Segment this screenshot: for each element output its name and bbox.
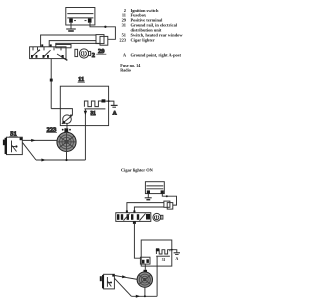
fusebox ON bbox=[141, 240, 172, 266]
wire fuse to lighter ON bbox=[144, 264, 146, 270]
svg-text:31: 31 bbox=[122, 23, 126, 28]
wire cigar lighter to ground wire bbox=[66, 152, 68, 161]
pin terminal squares on ignition switch bbox=[41, 44, 43, 46]
connector arrow ON bbox=[122, 275, 126, 278]
svg-text:A: A bbox=[113, 111, 117, 117]
svg-text:A: A bbox=[123, 52, 127, 57]
connector arrow on ground wire bbox=[84, 111, 87, 115]
svg-text:Cigar lighter ON: Cigar lighter ON bbox=[121, 168, 154, 173]
svg-text:31: 31 bbox=[162, 258, 166, 262]
cigar lighter disc ON bbox=[137, 272, 152, 287]
ground under battery bbox=[66, 23, 76, 31]
key cylinder ON bbox=[153, 213, 163, 221]
svg-text:A: A bbox=[176, 257, 179, 261]
wire terminal to ignition ON (lower) bbox=[134, 207, 164, 213]
bottom ground wire ON bbox=[131, 295, 157, 297]
ground rail comb ON bbox=[156, 248, 170, 261]
ignition switch key cylinder bbox=[75, 49, 91, 58]
wire ignition pin to terminal (lower) bbox=[49, 41, 96, 47]
fuse no.14 (circle with arrow) bbox=[62, 115, 73, 124]
wire ignition down ON bbox=[133, 221, 141, 258]
switch diagonal lead ON bbox=[115, 278, 132, 296]
svg-text:2: 2 bbox=[92, 52, 95, 59]
connector arrow on bottom wire ON bbox=[136, 295, 140, 298]
wire ignition pin to terminal (upper) bbox=[41, 35, 96, 47]
ground under battery ON bbox=[145, 194, 152, 200]
ground rail 31 comb bbox=[84, 99, 105, 109]
svg-text:Radio: Radio bbox=[120, 68, 131, 73]
ground point A bbox=[111, 105, 118, 107]
positive terminal 29 connector bbox=[96, 35, 108, 46]
wire fuse to cigar lighter bbox=[66, 124, 68, 129]
svg-text:distribution unit: distribution unit bbox=[131, 27, 162, 32]
switch 51 diagonal lead bbox=[23, 143, 37, 160]
battery (top diagram) bbox=[66, 8, 95, 26]
cigar lighter 223 terminal bbox=[62, 128, 71, 132]
pin ticks ON bbox=[126, 210, 128, 212]
fuse ON bbox=[140, 257, 150, 264]
ignition switch block ON bbox=[116, 213, 151, 222]
cigar lighter terminal ON bbox=[144, 270, 148, 273]
ground return wire up to rail ON bbox=[156, 256, 158, 296]
connector arrow on bottom wire bbox=[41, 159, 46, 162]
cigar lighter 223 element disc bbox=[57, 132, 76, 151]
wire into fuse bbox=[51, 109, 72, 116]
switch 51 ON bbox=[100, 274, 115, 289]
wire terminal to switch connector bbox=[56, 43, 100, 44]
svg-text:Ground point, right A-post: Ground point, right A-post bbox=[131, 52, 182, 57]
svg-text:Cigar lighter: Cigar lighter bbox=[131, 37, 155, 42]
positive terminal connector ON bbox=[164, 201, 173, 209]
wire switch to lighter ON bbox=[115, 276, 138, 280]
switch 51 heated rear window bbox=[3, 137, 22, 154]
svg-text:29: 29 bbox=[98, 48, 105, 55]
wire battery plus ON bbox=[162, 194, 176, 206]
ground point A ON bbox=[174, 253, 180, 261]
ignition switch connector box bbox=[56, 45, 71, 48]
svg-text:223: 223 bbox=[119, 37, 126, 42]
wire ground rail down to bottom net bbox=[84, 109, 86, 160]
wire comb to ground A ON bbox=[170, 250, 177, 253]
battery (ON diagram) bbox=[145, 182, 164, 194]
wire switch 51 to cigar lighter bbox=[22, 139, 57, 141]
wire terminal to ignition ON (upper) bbox=[127, 203, 164, 213]
ignition switch 2 block bbox=[30, 47, 68, 61]
legend bbox=[119, 8, 183, 58]
inline connector on wire bbox=[50, 79, 53, 82]
wire battery plus to positive terminal bbox=[90, 23, 115, 40]
connector arrow on wire bbox=[31, 139, 35, 142]
note fuse no 14 bbox=[120, 63, 141, 73]
wire comb to ground A bbox=[105, 101, 114, 105]
bottom ground wire bbox=[36, 159, 85, 161]
wire ignition switch down to fusebox bbox=[50, 59, 52, 109]
wire lighter to ground wire ON bbox=[144, 287, 146, 296]
fusebox 11 bbox=[60, 86, 108, 125]
